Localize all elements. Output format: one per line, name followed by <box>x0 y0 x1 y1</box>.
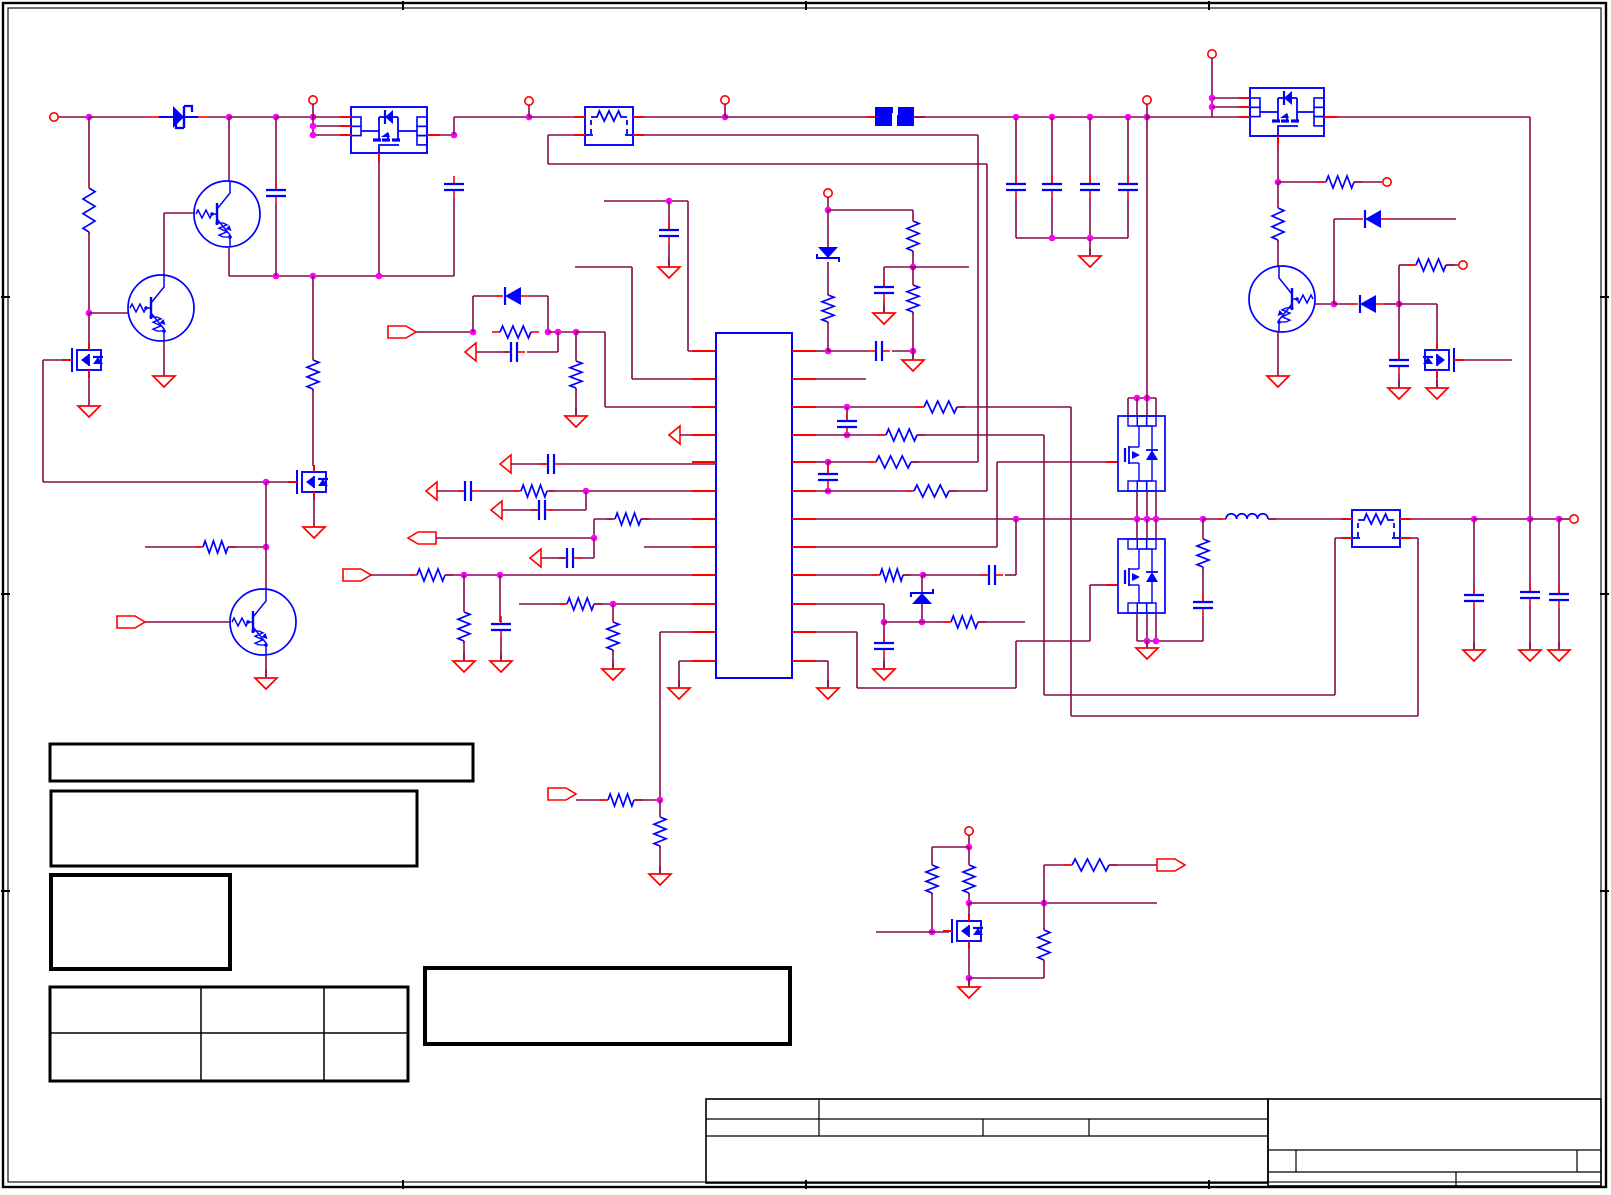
wire <box>659 800 661 816</box>
junction <box>844 432 851 439</box>
wire <box>1015 519 1017 575</box>
resistor R15 <box>654 815 666 848</box>
wire <box>1136 613 1138 641</box>
MOSFET package U4 <box>1118 416 1165 491</box>
ground <box>873 661 895 680</box>
wire <box>1127 117 1129 183</box>
wire <box>911 461 978 463</box>
junction <box>1134 516 1141 523</box>
wire <box>816 546 997 548</box>
capacitor C17 <box>837 413 857 435</box>
wire <box>576 331 605 333</box>
note box 4 <box>425 968 790 1044</box>
wire <box>1146 398 1148 416</box>
wire <box>612 604 614 621</box>
wire <box>529 116 585 118</box>
wire pin1 <box>688 350 716 352</box>
capacitor C16 <box>874 279 894 301</box>
wire <box>1278 181 1324 183</box>
wire <box>500 638 502 660</box>
wire rail <box>229 275 454 277</box>
wire <box>472 296 474 332</box>
wire U2 out <box>1324 116 1530 118</box>
resistor R2 <box>307 358 319 391</box>
junction <box>583 488 590 495</box>
wire Q8 base <box>145 621 230 623</box>
capacitor C23 <box>1520 584 1540 606</box>
wire pin <box>1212 97 1250 99</box>
capacitor C24 <box>1549 586 1569 608</box>
capacitor C20 <box>874 635 894 657</box>
capacitor C7 <box>1389 352 1409 374</box>
ground <box>602 661 624 680</box>
wire <box>453 198 455 276</box>
terminal <box>309 96 317 104</box>
wire <box>1015 117 1017 183</box>
ground <box>490 653 512 672</box>
wire <box>1446 264 1458 266</box>
port <box>426 482 437 500</box>
wire <box>977 135 979 462</box>
capacitor C22 <box>1464 587 1484 609</box>
wire <box>1529 519 1531 591</box>
junction <box>555 329 562 336</box>
wire <box>633 134 978 136</box>
wire <box>416 331 473 333</box>
wire <box>1137 640 1203 642</box>
wire <box>912 210 914 220</box>
wire <box>1400 537 1418 539</box>
wire <box>827 210 829 247</box>
wire pin3 <box>605 406 716 408</box>
resistor R5 <box>1408 259 1454 271</box>
wire <box>1202 567 1204 601</box>
junction <box>273 273 280 280</box>
wire <box>828 209 913 211</box>
wire <box>1146 491 1148 519</box>
ground <box>1267 368 1289 387</box>
wire <box>892 350 912 352</box>
wire <box>996 462 998 547</box>
ground <box>453 653 475 672</box>
wire <box>1109 864 1157 866</box>
IC pin stub overlay <box>692 351 816 661</box>
wire <box>827 661 829 687</box>
junction <box>1041 900 1048 907</box>
wire pin2 <box>632 378 716 380</box>
junction <box>881 619 888 626</box>
capacitor C11 <box>457 481 479 501</box>
wire pin12 <box>679 660 716 662</box>
junction <box>1153 638 1160 645</box>
wire U1 out <box>427 134 454 136</box>
junction <box>310 273 317 280</box>
wire <box>436 537 594 539</box>
ground <box>1426 380 1448 399</box>
wire <box>229 116 276 118</box>
wire <box>1398 304 1400 359</box>
port <box>500 455 511 473</box>
wire Q6 gate <box>1462 359 1512 361</box>
resistor R19 <box>916 401 965 413</box>
wire <box>1155 398 1157 416</box>
wire <box>1398 265 1400 304</box>
resistor R29 <box>1064 859 1117 871</box>
junction <box>657 797 664 804</box>
wire <box>687 201 689 351</box>
wire <box>548 331 576 333</box>
wire <box>1016 237 1128 239</box>
resistor R11 <box>458 610 470 643</box>
wire <box>659 846 661 873</box>
port <box>491 501 502 519</box>
wire <box>43 481 266 483</box>
wire <box>903 574 923 576</box>
wire <box>922 621 949 623</box>
wire <box>724 104 726 117</box>
wire <box>528 105 530 117</box>
terminal <box>525 97 533 105</box>
junction <box>310 132 317 139</box>
wire pin <box>1212 106 1250 108</box>
wire <box>265 482 267 547</box>
wire <box>1277 265 1279 267</box>
junction <box>1209 104 1216 111</box>
ground <box>958 979 980 998</box>
wire <box>921 604 923 622</box>
wire <box>1399 264 1414 266</box>
wire <box>1398 374 1400 387</box>
wire <box>1400 518 1474 520</box>
wire <box>931 893 933 932</box>
junction <box>451 132 458 139</box>
diode D4 <box>495 287 529 305</box>
wire <box>88 376 90 398</box>
wire <box>1127 398 1129 416</box>
wire <box>1268 518 1352 520</box>
ground <box>1463 642 1485 661</box>
MOSFET Q6 <box>1423 343 1463 377</box>
wire <box>1147 116 1212 118</box>
wire <box>548 134 585 136</box>
diode D3 <box>1350 295 1384 313</box>
wire pin8 <box>644 546 716 548</box>
wire <box>932 846 969 848</box>
junction <box>1275 179 1282 186</box>
junction <box>1049 235 1056 242</box>
transistor Q2 <box>128 275 194 341</box>
resistor R6 <box>492 326 539 338</box>
wire Q1 base <box>164 212 194 214</box>
wire pin5 <box>562 463 716 465</box>
wire <box>883 604 885 622</box>
wire <box>846 407 848 420</box>
wire pin <box>313 134 351 136</box>
wire <box>1089 238 1091 255</box>
junction <box>1153 516 1160 523</box>
wire <box>1333 219 1335 304</box>
wire <box>932 931 949 933</box>
wire Q1 emitter <box>228 247 230 276</box>
wire <box>511 463 546 465</box>
wire <box>593 519 595 538</box>
wire Q2 emitter <box>163 341 165 368</box>
resistor R17 <box>907 219 919 253</box>
wire <box>1529 117 1531 519</box>
wire <box>816 461 828 463</box>
wire <box>1146 104 1148 117</box>
wire pin10 <box>594 603 716 605</box>
wire <box>1155 519 1157 539</box>
wire <box>604 332 606 407</box>
wire <box>876 931 932 933</box>
resistor R23 <box>872 569 911 581</box>
wire <box>1136 398 1138 416</box>
junction <box>1471 516 1478 523</box>
wire <box>1202 519 1204 538</box>
wire pin6 <box>547 490 716 492</box>
port <box>465 343 476 361</box>
wire <box>816 406 922 408</box>
terminal <box>721 96 729 104</box>
port <box>117 616 145 628</box>
wire <box>1146 641 1148 647</box>
junction <box>966 900 973 907</box>
wire <box>1203 518 1222 520</box>
junction <box>591 535 598 542</box>
junction <box>1013 114 1020 121</box>
wire <box>1146 613 1148 641</box>
junction <box>966 975 973 982</box>
wire <box>968 847 970 864</box>
wire <box>275 204 277 276</box>
wire <box>473 295 500 297</box>
wire <box>917 434 1044 436</box>
revision table <box>50 987 408 1081</box>
resistor R10 <box>409 569 453 581</box>
capacitor C19 <box>981 565 1003 585</box>
wire <box>313 498 315 519</box>
MOSFET Q3 <box>63 343 103 377</box>
junction <box>573 329 580 336</box>
wire <box>502 509 537 511</box>
wire <box>88 117 90 187</box>
wire <box>1473 519 1475 594</box>
wire <box>1051 117 1053 183</box>
junction <box>920 572 927 579</box>
resistor R9 <box>607 513 649 525</box>
wire <box>816 660 828 662</box>
wire <box>1335 537 1352 539</box>
wire <box>208 116 229 118</box>
wire <box>1474 518 1530 520</box>
junction <box>310 123 317 130</box>
junction <box>1087 114 1094 121</box>
wire <box>1128 397 1156 399</box>
terminal <box>1208 50 1216 58</box>
wire <box>1417 538 1419 716</box>
wire <box>827 262 829 294</box>
note box 2 <box>51 791 417 866</box>
wire <box>1155 491 1157 519</box>
component pin stub overlay <box>340 98 1411 538</box>
wire <box>668 244 670 266</box>
title block <box>706 1099 1601 1186</box>
wire <box>547 296 549 332</box>
wire <box>557 332 559 352</box>
ground <box>303 519 325 538</box>
wire <box>1051 198 1053 238</box>
wire <box>634 799 660 801</box>
wire <box>978 621 1025 623</box>
junction <box>1331 301 1338 308</box>
wire VCC sense <box>604 200 688 202</box>
wire <box>1473 609 1475 649</box>
wire <box>1384 303 1399 305</box>
MOSFET Q7 <box>943 914 983 948</box>
capacitor C5 <box>1080 176 1100 198</box>
junction <box>1144 638 1151 645</box>
wire pin <box>816 378 866 380</box>
wire <box>437 490 463 492</box>
wire <box>527 351 558 353</box>
wire Q5 base <box>1315 303 1334 305</box>
wire U1 drain <box>378 153 380 276</box>
ground <box>1079 248 1101 267</box>
wire <box>968 947 970 978</box>
junction <box>470 329 477 336</box>
junction <box>1087 235 1094 242</box>
wire pin4 <box>680 434 716 436</box>
resistor R28 <box>1038 928 1050 962</box>
wire <box>1089 585 1091 641</box>
ground <box>1136 640 1158 659</box>
junction <box>1134 395 1141 402</box>
diode D2 <box>1355 210 1389 228</box>
wire <box>828 461 874 463</box>
wire <box>1146 117 1148 398</box>
resistor R20 <box>878 429 925 441</box>
wire switch-node bus <box>816 518 1203 520</box>
wire <box>678 661 680 687</box>
wire <box>1127 198 1129 238</box>
ground <box>1548 642 1570 661</box>
resistor R22 <box>906 485 957 497</box>
note box 3 <box>51 875 230 969</box>
wire <box>986 164 988 491</box>
capacitor C4 <box>1042 176 1062 198</box>
junction <box>844 404 851 411</box>
wire <box>312 117 314 135</box>
wire <box>816 574 878 576</box>
junction <box>1144 395 1151 402</box>
wire <box>968 893 970 903</box>
wire <box>88 313 90 344</box>
wire <box>575 388 577 415</box>
wire <box>463 575 465 611</box>
wire <box>145 546 201 548</box>
wire <box>827 322 829 351</box>
junction <box>1125 114 1132 121</box>
wire <box>1090 584 1106 586</box>
port <box>343 569 371 581</box>
transformer T1 <box>1352 510 1400 547</box>
wire <box>957 406 1071 408</box>
wire <box>883 267 885 286</box>
wire <box>997 461 1106 463</box>
inductor L1 <box>1218 514 1276 519</box>
wire <box>1044 694 1335 696</box>
resistor R16 <box>822 293 834 324</box>
junction <box>226 114 233 121</box>
resistor R8 <box>513 485 555 497</box>
wire <box>912 267 914 284</box>
wire <box>912 251 914 267</box>
wire <box>1559 518 1569 520</box>
ground <box>153 368 175 387</box>
wire <box>668 201 670 229</box>
junction <box>910 348 917 355</box>
resistor R1 <box>83 186 95 234</box>
wire <box>1044 864 1070 866</box>
resistor R27 <box>963 863 975 895</box>
capacitor C10 <box>540 454 562 474</box>
wire <box>828 350 868 352</box>
wire <box>827 462 829 473</box>
ground <box>1519 642 1541 661</box>
wire <box>1043 961 1045 978</box>
junction <box>526 114 533 121</box>
resistor R12 <box>559 598 602 610</box>
wire <box>856 632 858 688</box>
wire <box>1016 640 1090 642</box>
wire <box>1089 198 1091 238</box>
wire <box>1399 303 1437 305</box>
ground <box>668 680 690 699</box>
wire pin9 <box>445 574 716 576</box>
junction <box>461 572 468 579</box>
wire <box>479 490 519 492</box>
wire <box>968 835 970 847</box>
wire <box>575 332 577 360</box>
wire <box>594 518 613 520</box>
wire <box>816 350 828 352</box>
wire <box>912 312 914 351</box>
wire <box>228 546 266 548</box>
junction <box>1209 95 1216 102</box>
wire <box>612 650 614 668</box>
wire <box>631 267 633 379</box>
wire <box>463 641 465 660</box>
wire <box>968 978 970 986</box>
wire <box>659 632 661 800</box>
wire <box>519 603 565 605</box>
capacitor C21 <box>1193 594 1213 616</box>
wire <box>453 117 455 135</box>
terminal <box>824 189 832 197</box>
wire <box>827 197 829 210</box>
wire <box>923 574 987 576</box>
junction <box>376 273 383 280</box>
junction <box>910 264 917 271</box>
resistor R30 <box>195 541 236 553</box>
wire <box>1043 865 1045 929</box>
wire <box>547 135 549 164</box>
wire <box>1436 376 1438 387</box>
capacitor C1 <box>266 182 286 204</box>
wire pin <box>313 125 351 127</box>
wire AC input <box>58 116 89 118</box>
